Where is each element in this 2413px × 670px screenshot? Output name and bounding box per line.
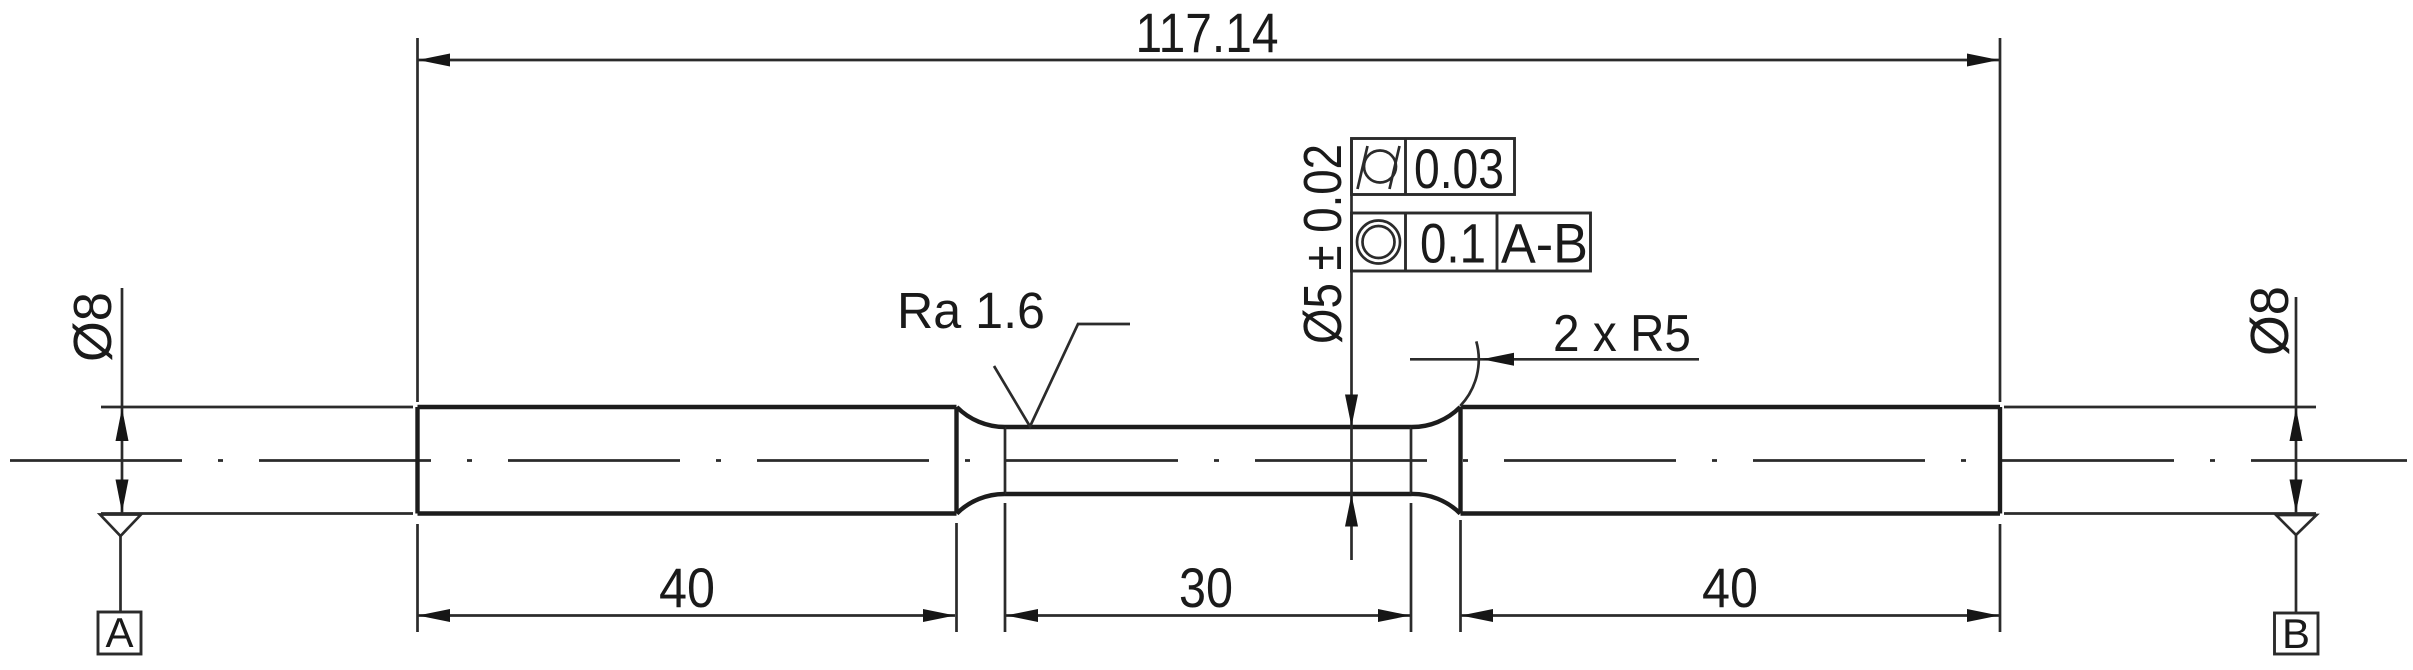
dimension Ø8 left extension lines xyxy=(101,407,413,514)
svg-text:Ra 1.6: Ra 1.6 xyxy=(897,282,1045,339)
concentricity symbol xyxy=(1357,221,1400,264)
radius leader arrow xyxy=(1482,353,1514,366)
dimension Ø5 dim line xyxy=(1350,139,1353,560)
dimension Ø8 right dim line xyxy=(2295,297,2298,515)
datum B triangle xyxy=(2276,515,2317,535)
part outline: right grip cylinder xyxy=(1461,407,2001,514)
feature control frame runout box xyxy=(1352,213,1591,271)
dimension Ø8 left dim line xyxy=(121,288,124,514)
surface finish symbol Ra 1.6 xyxy=(994,324,1130,427)
dimension 30 arrow left xyxy=(1006,609,1038,622)
fillet top-left R5 xyxy=(957,407,1005,427)
dimension Ø5 arrow down xyxy=(1345,395,1358,427)
dimension 117.14 extension line right xyxy=(1999,38,2002,402)
dimension 117.14 arrow left xyxy=(418,54,450,67)
part outline: gauge (narrow) section edges xyxy=(1005,427,1411,494)
centerline (dash-dot axis) xyxy=(10,459,2407,462)
gauge tangent edge right xyxy=(1410,427,1413,494)
cylindricity symbol xyxy=(1358,146,1400,189)
svg-text:Ø8: Ø8 xyxy=(63,292,123,362)
dimension 40 right arrow right xyxy=(1967,609,1999,622)
svg-text:0.1: 0.1 xyxy=(1420,212,1486,275)
dimension 40 right extension lines xyxy=(1461,520,2001,632)
svg-text:0.03: 0.03 xyxy=(1414,137,1504,200)
svg-text:A-B: A-B xyxy=(1501,212,1588,275)
dimension Ø8 right extension lines xyxy=(2004,407,2316,514)
feature control frame cylindricity box xyxy=(1352,139,1515,195)
dimension 40 left dim line xyxy=(418,614,955,617)
datum A triangle xyxy=(100,515,141,537)
svg-text:30: 30 xyxy=(1179,556,1233,619)
dimension 117.14 arrow right xyxy=(1967,54,1999,67)
dimension Ø5 arrow up xyxy=(1345,495,1358,527)
datum B leader line xyxy=(2295,535,2298,613)
dimension 30 extension lines xyxy=(1005,503,1411,632)
svg-text:Ø5 ± 0.02: Ø5 ± 0.02 xyxy=(1293,144,1353,344)
radius leader line xyxy=(1410,358,1699,361)
dimension 117.14 line xyxy=(418,59,1999,62)
svg-text:117.14: 117.14 xyxy=(1136,1,1279,64)
dimension Ø8 left arrow down xyxy=(116,480,129,513)
svg-text:40: 40 xyxy=(659,556,715,619)
svg-text:A: A xyxy=(105,609,133,656)
dimension 40 left arrow right xyxy=(923,609,955,622)
radius leader arc xyxy=(1460,341,1479,406)
gauge tangent edge left xyxy=(1004,427,1007,494)
dimension 40 right arrow left xyxy=(1461,609,1493,622)
dimension 117.14 extension line left xyxy=(416,38,419,402)
dimension 30 dim line xyxy=(1006,614,1410,617)
dimension Ø8 right arrow down xyxy=(2290,480,2303,513)
fillet bottom-right R5 xyxy=(1411,494,1460,514)
dimension Ø8 right arrow up xyxy=(2290,408,2303,441)
dimension 40 left arrow left xyxy=(418,609,450,622)
svg-text:40: 40 xyxy=(1702,556,1758,619)
dimension 30 arrow right xyxy=(1378,609,1410,622)
svg-text:2 x R5: 2 x R5 xyxy=(1553,305,1691,363)
dimension Ø8 left arrow up xyxy=(116,408,129,441)
datum A box xyxy=(98,612,141,654)
fillet bottom-left R5 xyxy=(957,494,1005,514)
part outline: left grip cylinder xyxy=(418,407,957,514)
svg-text:Ø8: Ø8 xyxy=(2240,286,2300,356)
datum A leader line xyxy=(119,536,122,612)
svg-text:B: B xyxy=(2282,610,2310,657)
datum B box xyxy=(2275,613,2319,654)
dimension 40 right dim line xyxy=(1461,614,1999,617)
fillet top-right R5 xyxy=(1411,407,1460,427)
dimension 40 left extension lines xyxy=(418,523,957,632)
